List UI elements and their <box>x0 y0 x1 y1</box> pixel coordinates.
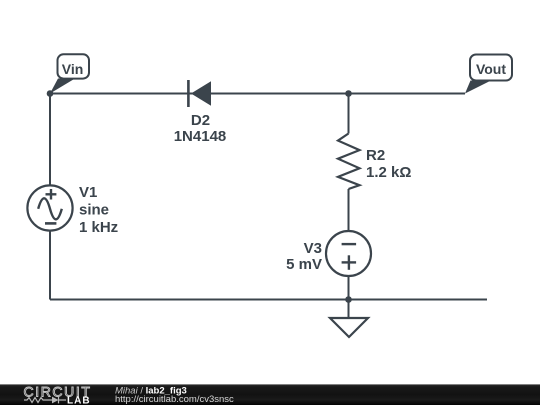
wire R2 branch top <box>348 94 350 134</box>
svg-text:LAB: LAB <box>67 396 91 405</box>
svg-text:V1: V1 <box>79 184 97 201</box>
svg-text:1 kHz: 1 kHz <box>79 219 118 236</box>
svg-text:http://circuitlab.com/cv3snsc: http://circuitlab.com/cv3snsc <box>115 394 234 405</box>
svg-text:1.2 kΩ: 1.2 kΩ <box>366 164 411 181</box>
svg-text:V3: V3 <box>304 240 322 257</box>
node bottom rail / ground junction <box>345 296 352 303</box>
svg-text:D2: D2 <box>191 112 210 129</box>
wire ground stub <box>348 300 350 319</box>
resistor R2 <box>338 134 411 190</box>
label V1 <box>79 184 118 236</box>
svg-text:Vin: Vin <box>62 61 84 77</box>
diode D2 <box>174 80 227 145</box>
node Vin junction <box>47 90 54 97</box>
label V3 <box>286 240 322 273</box>
svg-text:R2: R2 <box>366 147 385 164</box>
wire V1 bottom to bottom rail <box>49 231 51 300</box>
source V1 <box>27 185 72 230</box>
wire R2 bottom to V3 top <box>348 189 350 231</box>
footer bar <box>0 384 540 405</box>
logo squiggle <box>24 397 66 404</box>
svg-text:1N4148: 1N4148 <box>174 128 227 145</box>
flag Vout <box>465 55 512 94</box>
svg-text:sine: sine <box>79 202 109 219</box>
svg-text:5 mV: 5 mV <box>286 256 322 273</box>
wire top rail <box>50 93 465 95</box>
svg-text:Vout: Vout <box>476 61 506 77</box>
flag Vin <box>50 54 89 93</box>
wire V3 bottom to bottom rail <box>348 276 350 300</box>
ground <box>330 318 368 337</box>
source V3 <box>326 231 371 276</box>
wire bottom rail <box>50 299 487 301</box>
node top rail / R2 junction <box>345 90 352 97</box>
wire left vertical (Vin to V1 top) <box>49 94 51 186</box>
